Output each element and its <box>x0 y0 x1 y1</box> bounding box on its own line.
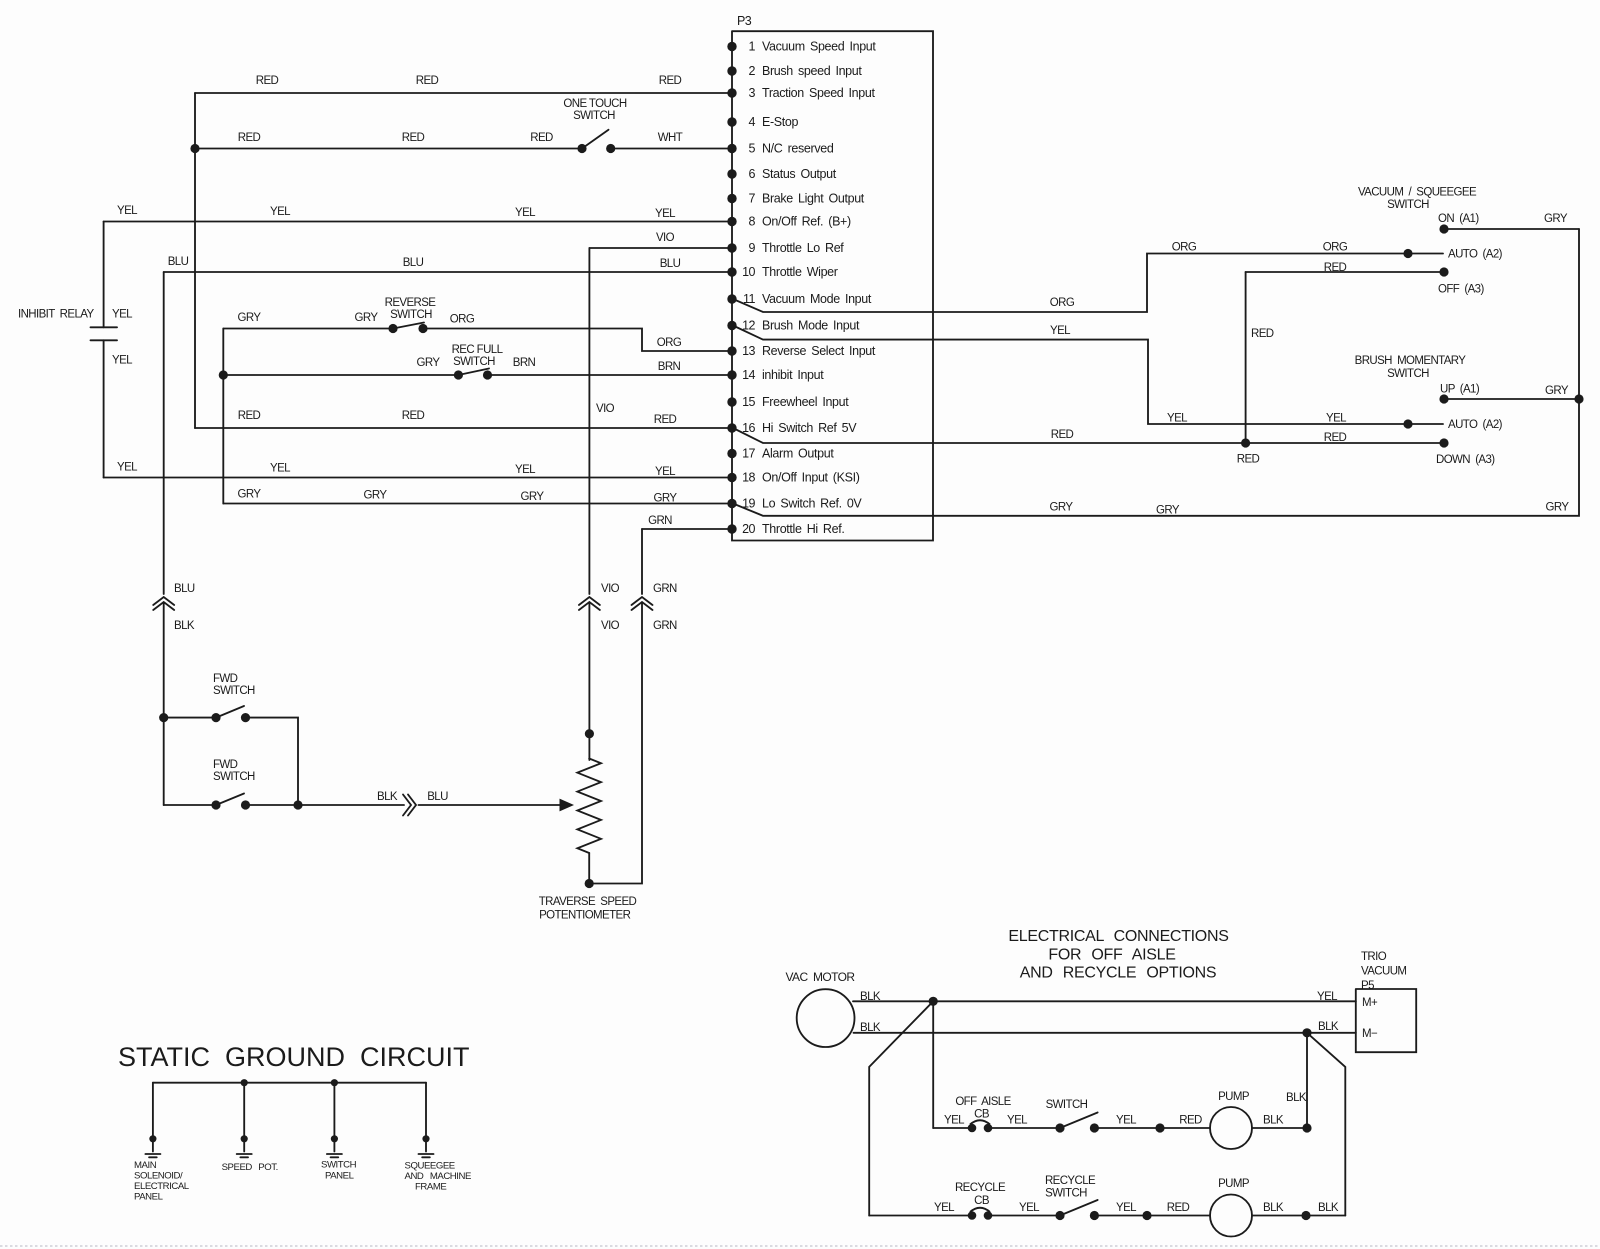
svg-text:Traction Speed Input: Traction Speed Input <box>762 86 875 100</box>
svg-text:Brake Light Output: Brake Light Output <box>762 192 865 206</box>
svg-text:BLU: BLU <box>174 583 195 595</box>
svg-text:RED: RED <box>1237 454 1260 466</box>
svg-text:2: 2 <box>749 64 756 78</box>
svg-text:RECYCLE: RECYCLE <box>1045 1175 1096 1187</box>
svg-text:GRY: GRY <box>238 312 262 324</box>
svg-text:YEL: YEL <box>1116 1115 1137 1127</box>
svg-text:RED: RED <box>402 410 425 422</box>
svg-text:RED: RED <box>1324 262 1347 274</box>
svg-text:Reverse Select Input: Reverse Select Input <box>762 344 876 358</box>
svg-text:M−: M− <box>1362 1028 1378 1040</box>
svg-text:VIO: VIO <box>601 620 620 632</box>
svg-text:YEL: YEL <box>112 309 133 321</box>
svg-text:GRY: GRY <box>521 491 545 503</box>
svg-text:P5: P5 <box>1361 980 1374 992</box>
svg-text:YEL: YEL <box>515 464 536 476</box>
svg-text:SWITCH: SWITCH <box>321 1160 357 1171</box>
svg-text:RED: RED <box>1051 429 1074 441</box>
svg-text:GRY: GRY <box>417 357 441 369</box>
svg-text:GRY: GRY <box>1156 505 1180 517</box>
svg-text:YEL: YEL <box>655 208 676 220</box>
svg-text:On/Off Ref. (B+): On/Off Ref. (B+) <box>762 215 851 229</box>
svg-text:ON (A1): ON (A1) <box>1438 213 1479 225</box>
svg-text:BLK: BLK <box>1263 1202 1284 1214</box>
svg-text:Throttle Hi Ref.: Throttle Hi Ref. <box>762 522 844 536</box>
svg-text:YEL: YEL <box>934 1202 955 1214</box>
svg-text:GRY: GRY <box>355 312 379 324</box>
svg-text:18: 18 <box>742 471 755 485</box>
svg-text:RED: RED <box>1179 1115 1202 1127</box>
svg-text:WHT: WHT <box>658 132 683 144</box>
svg-text:BLK: BLK <box>860 1022 881 1034</box>
svg-text:SWITCH: SWITCH <box>453 356 495 368</box>
svg-text:FOR OFF AISLE: FOR OFF AISLE <box>1048 947 1175 964</box>
svg-text:YEL: YEL <box>1326 413 1347 425</box>
svg-text:AND MACHINE: AND MACHINE <box>405 1171 471 1182</box>
svg-text:BLK: BLK <box>377 791 398 803</box>
svg-text:SOLENOID/: SOLENOID/ <box>134 1171 183 1182</box>
svg-text:RED: RED <box>1167 1202 1190 1214</box>
svg-text:YEL: YEL <box>515 207 536 219</box>
svg-text:YEL: YEL <box>655 466 676 478</box>
svg-text:YEL: YEL <box>1116 1202 1137 1214</box>
svg-text:BLK: BLK <box>860 991 881 1003</box>
svg-text:SQUEEGEE: SQUEEGEE <box>405 1161 455 1172</box>
svg-text:VAC MOTOR: VAC MOTOR <box>786 970 856 984</box>
svg-text:ORG: ORG <box>1050 297 1075 309</box>
svg-text:16: 16 <box>742 421 755 435</box>
svg-text:Alarm Output: Alarm Output <box>762 447 834 461</box>
svg-text:GRY: GRY <box>1544 213 1568 225</box>
svg-text:P3: P3 <box>737 14 752 28</box>
svg-text:Lo Switch Ref. 0V: Lo Switch Ref. 0V <box>762 497 862 511</box>
svg-text:SWITCH: SWITCH <box>213 771 255 783</box>
svg-text:Vacuum Speed Input: Vacuum Speed Input <box>762 40 876 54</box>
svg-text:11: 11 <box>743 292 756 306</box>
svg-text:PUMP: PUMP <box>1218 1178 1250 1190</box>
svg-text:ONE TOUCH: ONE TOUCH <box>563 98 626 110</box>
svg-text:VACUUM / SQUEEGEE: VACUUM / SQUEEGEE <box>1358 187 1477 199</box>
svg-text:VACUUM: VACUUM <box>1361 966 1406 978</box>
svg-text:TRAVERSE SPEED: TRAVERSE SPEED <box>539 896 637 908</box>
svg-text:Freewheel Input: Freewheel Input <box>762 395 849 409</box>
svg-text:SWITCH: SWITCH <box>1387 199 1429 211</box>
svg-text:INHIBIT RELAY: INHIBIT RELAY <box>18 309 94 321</box>
svg-text:PANEL: PANEL <box>134 1191 164 1202</box>
svg-text:ORG: ORG <box>657 337 682 349</box>
svg-text:STATIC GROUND CIRCUIT: STATIC GROUND CIRCUIT <box>118 1042 470 1072</box>
svg-text:AUTO (A2): AUTO (A2) <box>1448 419 1503 431</box>
svg-text:RED: RED <box>1324 432 1347 444</box>
svg-text:RED: RED <box>402 132 425 144</box>
svg-text:RED: RED <box>1251 328 1274 340</box>
svg-text:9: 9 <box>749 241 756 255</box>
svg-text:14: 14 <box>742 368 755 382</box>
svg-text:OFF AISLE: OFF AISLE <box>955 1096 1011 1108</box>
svg-text:YEL: YEL <box>270 206 291 218</box>
svg-text:RED: RED <box>238 410 261 422</box>
svg-text:BLU: BLU <box>427 791 448 803</box>
svg-text:YEL: YEL <box>112 355 133 367</box>
svg-text:ORG: ORG <box>1172 242 1197 254</box>
svg-text:4: 4 <box>749 115 756 129</box>
svg-text:GRY: GRY <box>1546 502 1570 514</box>
svg-text:MAIN: MAIN <box>134 1160 157 1171</box>
svg-text:OFF (A3): OFF (A3) <box>1438 284 1484 296</box>
svg-text:GRY: GRY <box>238 489 262 501</box>
svg-text:BLK: BLK <box>1318 1202 1339 1214</box>
svg-text:BLK: BLK <box>1263 1115 1284 1127</box>
svg-text:13: 13 <box>742 344 755 358</box>
svg-text:BLU: BLU <box>168 256 189 268</box>
svg-text:10: 10 <box>742 265 755 279</box>
svg-text:GRN: GRN <box>653 620 677 632</box>
svg-text:5: 5 <box>749 142 756 156</box>
svg-text:VIO: VIO <box>596 403 615 415</box>
svg-text:N/C reserved: N/C reserved <box>762 142 834 156</box>
svg-text:TRIO: TRIO <box>1361 951 1387 963</box>
svg-text:SPEED POT.: SPEED POT. <box>222 1162 278 1173</box>
svg-text:20: 20 <box>742 522 755 536</box>
svg-text:Brush speed Input: Brush speed Input <box>762 64 862 78</box>
svg-text:PUMP: PUMP <box>1218 1091 1250 1103</box>
svg-text:AUTO (A2): AUTO (A2) <box>1448 249 1503 261</box>
svg-text:VIO: VIO <box>656 232 675 244</box>
svg-text:19: 19 <box>742 497 755 511</box>
svg-text:ORG: ORG <box>450 314 475 326</box>
svg-text:FRAME: FRAME <box>415 1182 446 1193</box>
svg-text:RED: RED <box>416 75 439 87</box>
svg-text:FWD: FWD <box>213 759 238 771</box>
svg-text:REVERSE: REVERSE <box>385 297 437 309</box>
svg-text:17: 17 <box>742 447 755 461</box>
svg-text:BLK: BLK <box>1286 1092 1307 1104</box>
svg-text:UP (A1): UP (A1) <box>1440 384 1480 396</box>
svg-text:RED: RED <box>530 132 553 144</box>
svg-text:GRY: GRY <box>1050 502 1074 514</box>
svg-text:GRN: GRN <box>653 583 677 595</box>
svg-text:GRY: GRY <box>1545 385 1569 397</box>
svg-text:15: 15 <box>742 395 755 409</box>
svg-text:GRY: GRY <box>654 493 678 505</box>
svg-text:ORG: ORG <box>1323 242 1348 254</box>
svg-text:DOWN (A3): DOWN (A3) <box>1436 454 1495 466</box>
svg-text:AND RECYCLE OPTIONS: AND RECYCLE OPTIONS <box>1020 965 1217 982</box>
svg-text:On/Off Input (KSI): On/Off Input (KSI) <box>762 471 860 485</box>
svg-text:PANEL: PANEL <box>325 1170 355 1181</box>
svg-text:12: 12 <box>742 319 755 333</box>
svg-text:YEL: YEL <box>1019 1202 1040 1214</box>
svg-text:Brush Mode Input: Brush Mode Input <box>762 319 860 333</box>
svg-text:YEL: YEL <box>1167 413 1188 425</box>
svg-text:M+: M+ <box>1362 997 1378 1009</box>
svg-text:YEL: YEL <box>270 463 291 475</box>
svg-text:FWD: FWD <box>213 673 238 685</box>
svg-text:BRN: BRN <box>658 361 681 373</box>
svg-text:ELECTRICAL: ELECTRICAL <box>134 1181 190 1192</box>
svg-text:YEL: YEL <box>117 462 138 474</box>
svg-text:BLK: BLK <box>174 620 195 632</box>
svg-text:SWITCH: SWITCH <box>573 110 615 122</box>
svg-text:BLK: BLK <box>1318 1021 1339 1033</box>
svg-text:6: 6 <box>749 167 756 181</box>
svg-text:RECYCLE: RECYCLE <box>955 1182 1006 1194</box>
svg-text:GRN: GRN <box>648 515 672 527</box>
svg-text:YEL: YEL <box>1007 1115 1028 1127</box>
svg-text:SWITCH: SWITCH <box>390 309 432 321</box>
svg-text:GRY: GRY <box>364 490 388 502</box>
svg-text:3: 3 <box>749 86 756 100</box>
svg-text:RED: RED <box>659 75 682 87</box>
svg-text:POTENTIOMETER: POTENTIOMETER <box>539 910 631 922</box>
svg-text:1: 1 <box>749 40 756 54</box>
svg-text:YEL: YEL <box>117 205 138 217</box>
svg-text:RED: RED <box>256 75 279 87</box>
svg-text:7: 7 <box>749 192 756 206</box>
svg-text:YEL: YEL <box>1050 325 1071 337</box>
svg-text:REC FULL: REC FULL <box>452 344 504 356</box>
svg-text:ELECTRICAL CONNECTIONS: ELECTRICAL CONNECTIONS <box>1008 928 1228 945</box>
svg-text:BRN: BRN <box>513 357 536 369</box>
svg-text:Status Output: Status Output <box>762 167 837 181</box>
svg-text:CB: CB <box>974 1109 990 1121</box>
svg-text:inhibit Input: inhibit Input <box>762 368 824 382</box>
svg-text:BLU: BLU <box>660 258 681 270</box>
svg-text:VIO: VIO <box>601 583 620 595</box>
svg-text:Throttle Lo Ref: Throttle Lo Ref <box>762 241 844 255</box>
svg-text:Hi Switch Ref 5V: Hi Switch Ref 5V <box>762 421 857 435</box>
svg-text:YEL: YEL <box>1317 991 1338 1003</box>
svg-text:Vacuum Mode Input: Vacuum Mode Input <box>762 292 872 306</box>
svg-text:SWITCH: SWITCH <box>1045 1188 1087 1200</box>
svg-text:SWITCH: SWITCH <box>1387 368 1429 380</box>
svg-text:BRUSH MOMENTARY: BRUSH MOMENTARY <box>1355 355 1467 367</box>
svg-text:RED: RED <box>654 414 677 426</box>
svg-text:E-Stop: E-Stop <box>762 115 799 129</box>
svg-text:8: 8 <box>749 215 756 229</box>
svg-text:BLU: BLU <box>403 257 424 269</box>
svg-text:SWITCH: SWITCH <box>213 685 255 697</box>
svg-text:Throttle Wiper: Throttle Wiper <box>762 265 838 279</box>
svg-text:RED: RED <box>238 132 261 144</box>
svg-text:CB: CB <box>974 1195 990 1207</box>
svg-text:SWITCH: SWITCH <box>1046 1099 1088 1111</box>
svg-text:YEL: YEL <box>944 1115 965 1127</box>
